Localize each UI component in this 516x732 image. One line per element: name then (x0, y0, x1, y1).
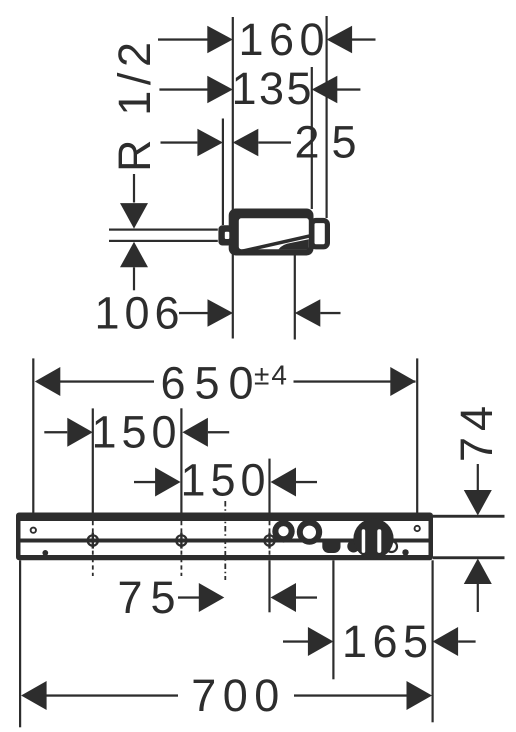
extension lines below bar (19, 560, 21, 727)
svg-text:150: 150 (181, 455, 266, 506)
extension line 135 right (x=311.8) (311, 67, 313, 209)
svg-text:160: 160 (239, 14, 325, 65)
svg-text:650: 650 (161, 358, 254, 409)
diagonal line (236, 234, 310, 254)
dimension 160 (158, 14, 376, 65)
left ear bump (347, 540, 359, 552)
screw hole ring left (31, 528, 36, 533)
dashed line through bar x=181.4 (180, 521, 182, 576)
dashed line through bar x=269.5 (269, 521, 271, 560)
screw hole ring right (415, 526, 420, 531)
svg-text:±4: ±4 (254, 360, 287, 391)
dimension 106 (95, 288, 341, 339)
crosshair screw 3 (264, 533, 274, 549)
extension line 106 right (x=294.8) (294, 245, 296, 340)
svg-text:700: 700 (191, 670, 279, 721)
dimension 650 +-4 (35, 358, 416, 409)
dimension 25 (161, 117, 357, 168)
small dot left (42, 550, 48, 556)
label R 1/2 (109, 42, 218, 290)
svg-text:135: 135 (232, 63, 312, 114)
dimension 74 (right side) (433, 406, 505, 612)
button ring 1 (272, 520, 294, 542)
dimension 135 (159, 63, 360, 114)
svg-text:75: 75 (118, 572, 176, 623)
small dot right (402, 549, 408, 555)
knob disc (353, 519, 393, 559)
right ear (386, 541, 397, 552)
dimension 700 (21, 670, 432, 721)
product side view: body (218, 209, 327, 256)
svg-text:74: 74 (451, 406, 502, 462)
button ring 2 (297, 519, 322, 544)
extension line left edge (x=232.8) (232, 17, 234, 339)
crosshair screw 2 (176, 533, 186, 549)
bottom: extension lines above bar (32, 358, 34, 513)
outlet blob (322, 543, 340, 554)
crosshair screw 1 (88, 533, 98, 549)
handle blob inside (279, 239, 309, 249)
svg-text:R 1/2: R 1/2 (109, 42, 160, 172)
centre dash-dot line x=225.3 (224, 501, 226, 580)
dimension 165 (283, 616, 476, 667)
dimension 75 (118, 572, 318, 623)
wall bar (front view) (16, 513, 433, 561)
extension line connector face (x=222.9) (222, 119, 224, 226)
right knob piece (312, 221, 328, 247)
dimension 150 (row 2) (134, 455, 317, 506)
left connector (218, 225, 232, 245)
solid line below bar x=269.5 (75 ref) (268, 560, 270, 612)
dashed line through bar x=92.8 (92, 521, 94, 576)
svg-text:165: 165 (342, 616, 428, 667)
svg-text:150: 150 (92, 407, 177, 458)
dimension 150 (row 1) (44, 407, 229, 458)
extension line 160 right (x=326.6) (326, 16, 328, 218)
svg-text:106: 106 (95, 288, 180, 339)
